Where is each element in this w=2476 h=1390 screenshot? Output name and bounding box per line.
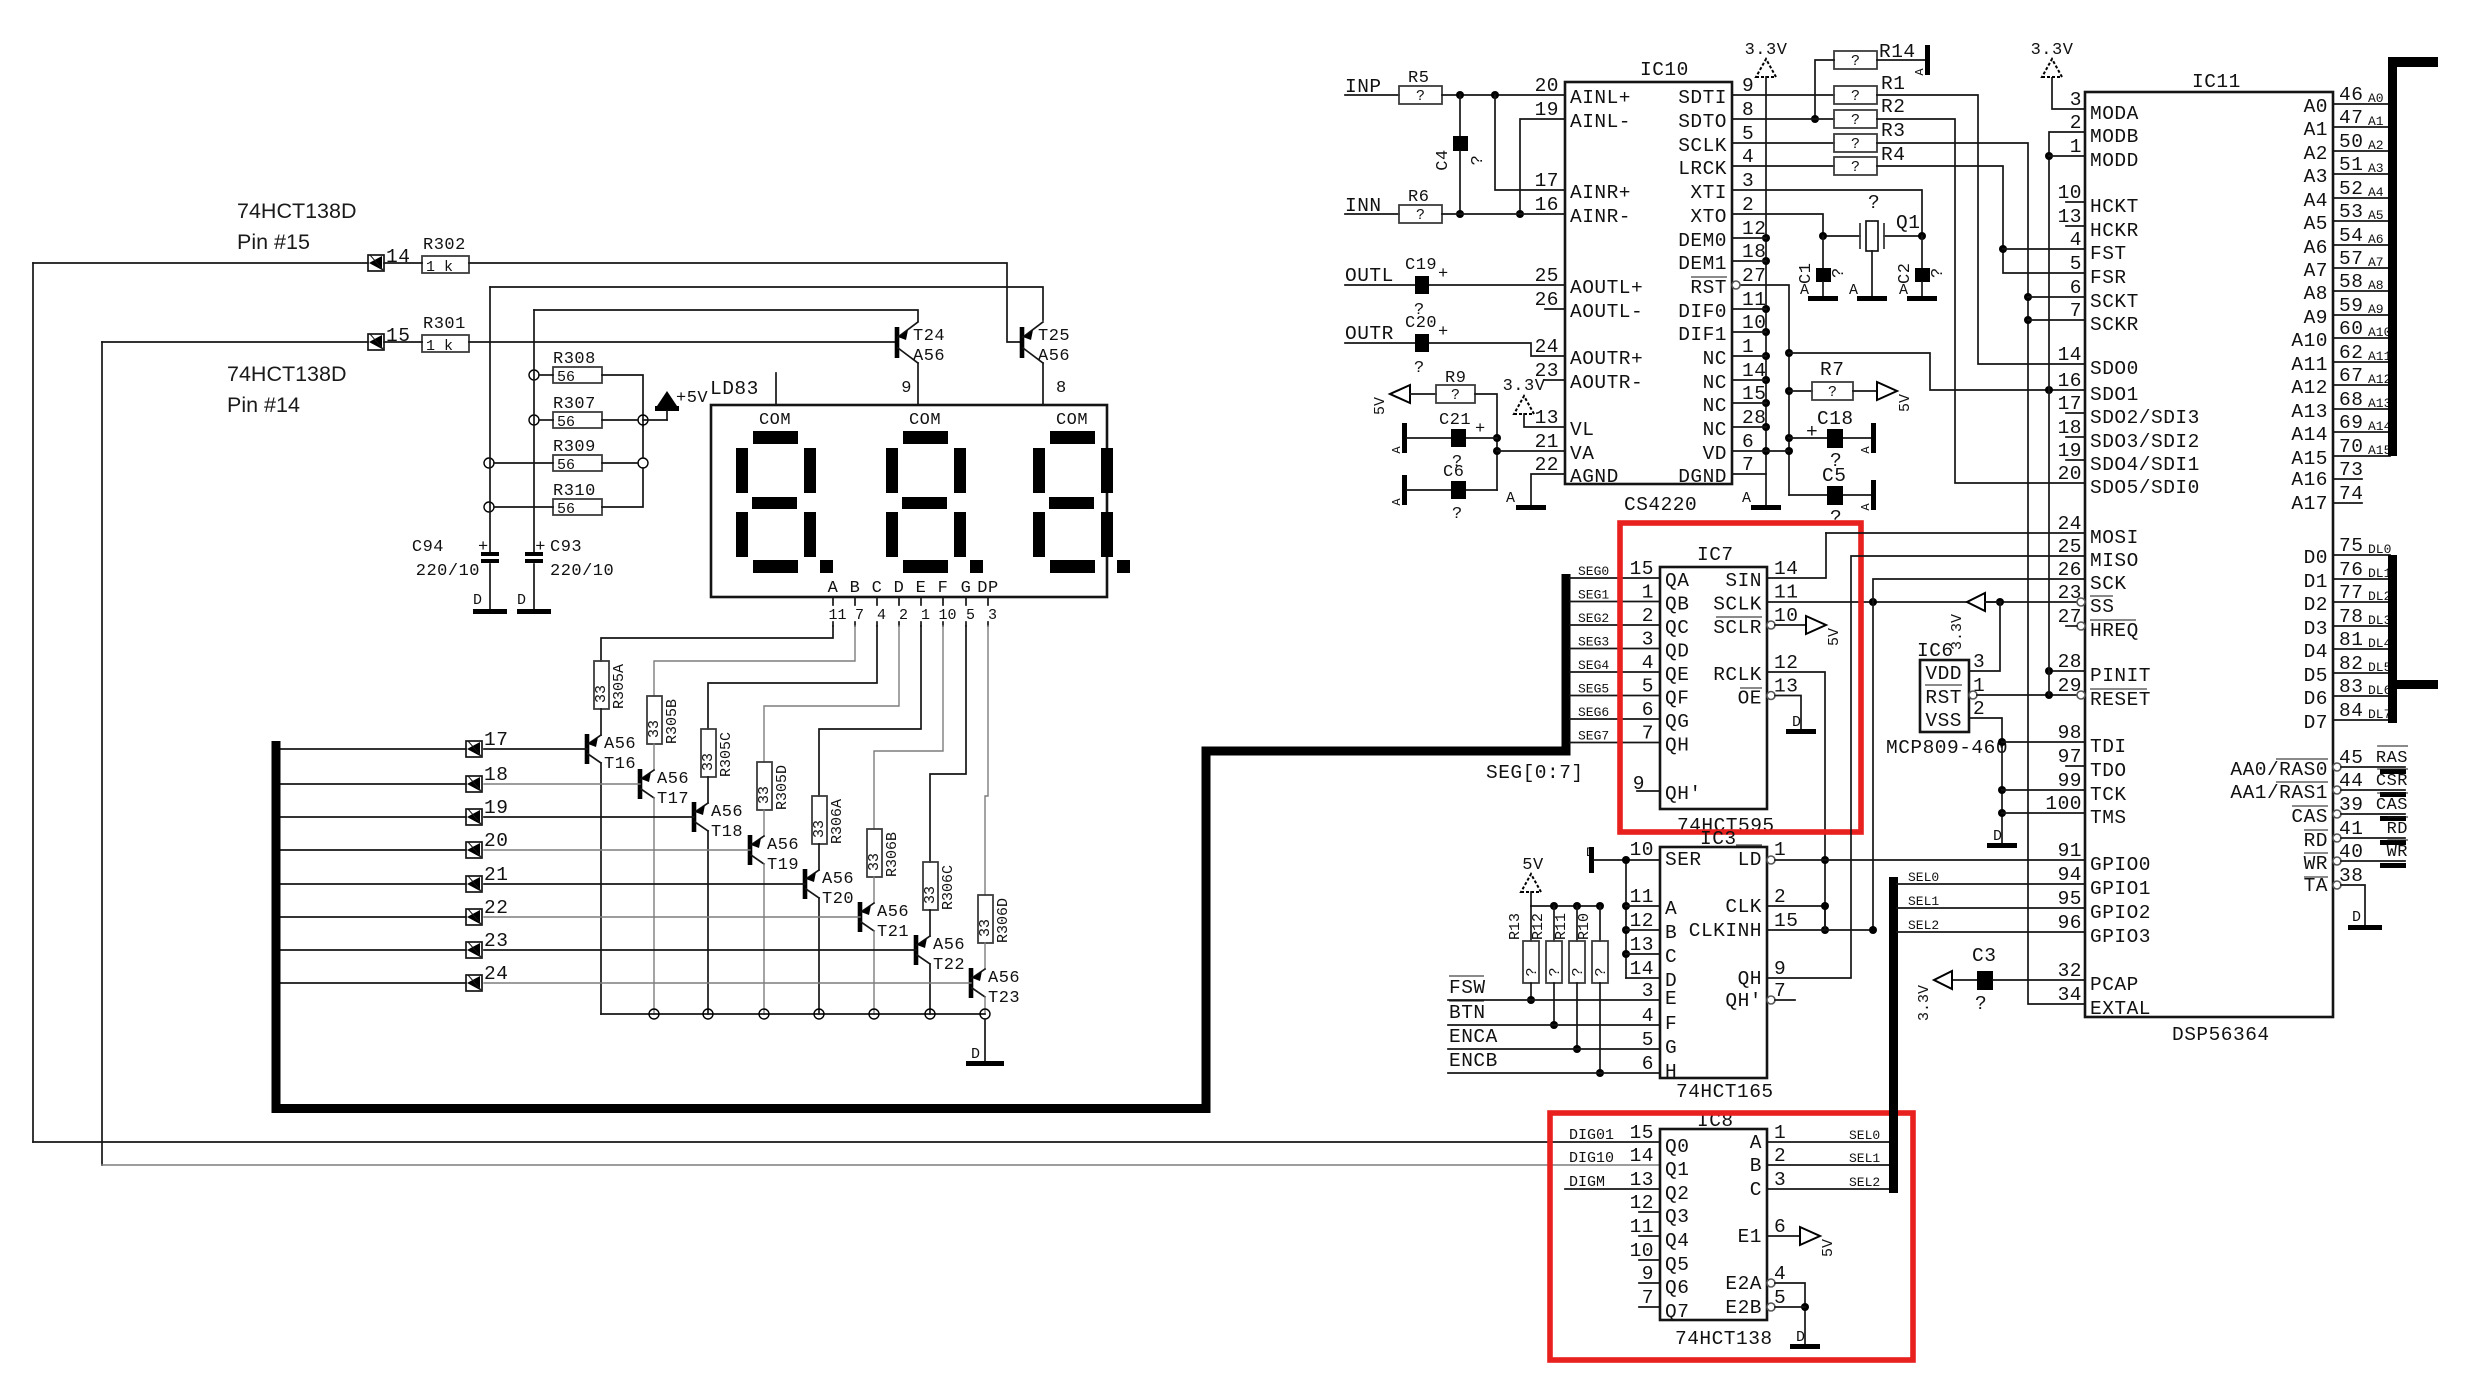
svg-text:D: D — [894, 579, 905, 598]
svg-text:T19: T19 — [767, 856, 799, 875]
svg-text:?: ? — [1524, 967, 1541, 976]
wire net DIG01 left vertical from pin-14 row down to bottom run — [32, 263, 34, 1142]
svg-text:A6: A6 — [2368, 232, 2384, 247]
display digit 2 segment G — [902, 497, 947, 509]
svg-text:R13: R13 — [1507, 913, 1524, 940]
wire bus to arrow 17 — [280, 748, 466, 750]
wire OE to ground — [1767, 692, 1775, 700]
svg-text:R301: R301 — [423, 315, 466, 334]
svg-text:20: 20 — [2058, 463, 2082, 485]
svg-text:ENCB: ENCB — [1449, 1050, 1498, 1072]
wire R4 to FST/FSR — [1877, 166, 2085, 273]
svg-text:DSP56364: DSP56364 — [2172, 1024, 2270, 1046]
input pin arrow 22 — [466, 909, 482, 925]
svg-text:7: 7 — [1642, 1287, 1654, 1309]
svg-text:RAS: RAS — [2376, 749, 2408, 768]
svg-text:24: 24 — [2058, 513, 2082, 535]
wire net DIG10 to input arrow 15 — [102, 341, 368, 343]
svg-text:A5: A5 — [2304, 213, 2328, 235]
svg-text:A1: A1 — [2304, 119, 2328, 141]
svg-text:69: 69 — [2339, 412, 2363, 434]
wire R308 right to +5V rail — [602, 375, 643, 426]
ground A at R14 — [1925, 45, 1930, 75]
resistor R305C 33 — [701, 729, 716, 777]
wire FSW to IC3 E — [1448, 999, 1660, 1001]
svg-text:38: 38 — [2339, 865, 2363, 887]
wire SEG7 from bus to IC7 QH — [1570, 742, 1660, 744]
wire common line to ground — [984, 1019, 986, 1061]
IC11 inside overline RAS0 — [2276, 758, 2328, 760]
svg-text:MISO: MISO — [2090, 550, 2139, 572]
input pin arrow 18 — [466, 776, 482, 792]
svg-text:A14: A14 — [2291, 424, 2328, 446]
display segment pin 7 stub — [854, 597, 856, 605]
svg-text:CLKINH: CLKINH — [1689, 920, 1762, 942]
svg-text:81: 81 — [2339, 629, 2363, 651]
svg-text:Q6: Q6 — [1665, 1277, 1689, 1299]
display digit 2 segment DP — [970, 560, 983, 573]
svg-text:17: 17 — [1535, 170, 1559, 192]
wire bus to arrow 19 — [280, 816, 466, 818]
wire XTO to crystal — [1732, 214, 1860, 236]
svg-text:D2: D2 — [2304, 594, 2328, 616]
svg-text:A4: A4 — [2368, 185, 2384, 200]
thick bus stub CAS — [2380, 816, 2406, 821]
svg-text:3: 3 — [2070, 89, 2082, 111]
display segment pin 3 stub — [987, 597, 989, 605]
display digit 2 segment C — [954, 512, 966, 557]
svg-text:AOUTR+: AOUTR+ — [1570, 348, 1643, 370]
svg-text:SEL1: SEL1 — [1849, 1151, 1880, 1166]
svg-text:6: 6 — [1642, 699, 1654, 721]
svg-text:33: 33 — [977, 919, 994, 937]
display digit 3 segment F — [1033, 448, 1045, 493]
svg-text:AINL+: AINL+ — [1570, 87, 1631, 109]
wire CLKINH to SCK net — [1767, 929, 1873, 931]
svg-text:?: ? — [1851, 53, 1860, 70]
svg-text:QE: QE — [1665, 664, 1689, 686]
svg-text:R305D: R305D — [774, 765, 791, 810]
svg-text:R305C: R305C — [718, 732, 735, 777]
svg-text:VL: VL — [1570, 419, 1594, 441]
transistor T19 A56 — [748, 835, 753, 865]
svg-text:4: 4 — [1742, 146, 1754, 168]
wire SEG6 from bus to IC7 QG — [1570, 718, 1660, 720]
svg-text:SDO3/SDI2: SDO3/SDI2 — [2090, 431, 2200, 453]
svg-text:10: 10 — [1630, 1240, 1654, 1262]
svg-text:DEM1: DEM1 — [1678, 253, 1727, 275]
power 3.3V arrow at C3 — [1934, 971, 1952, 989]
svg-text:A56: A56 — [822, 870, 854, 889]
svg-text:9: 9 — [1774, 958, 1786, 980]
svg-text:33: 33 — [756, 786, 773, 804]
svg-text:56: 56 — [557, 414, 575, 431]
wire R305A to T16 emitter — [600, 709, 602, 735]
svg-text:C: C — [872, 579, 883, 598]
svg-text:A: A — [1849, 282, 1858, 299]
svg-text:Pin #15: Pin #15 — [237, 230, 310, 254]
svg-text:AOUTL+: AOUTL+ — [1570, 277, 1643, 299]
wire VSS down through JTAG pins to ground — [1969, 718, 2002, 843]
svg-text:2: 2 — [1642, 605, 1654, 627]
display digit 2 segment A — [903, 431, 948, 444]
power 3.3V arrow at IC6 — [1967, 593, 1985, 611]
svg-text:A: A — [828, 579, 839, 598]
svg-text:OUTL: OUTL — [1345, 265, 1394, 287]
wire GPIO2 SEL1 — [1897, 907, 2085, 909]
wire R305B to T17 emitter — [653, 744, 655, 770]
svg-text:6: 6 — [1742, 431, 1754, 453]
svg-text:CS4220: CS4220 — [1624, 494, 1697, 516]
svg-text:R3: R3 — [1881, 120, 1905, 142]
svg-text:SCK: SCK — [2090, 573, 2127, 595]
svg-text:RST: RST — [1925, 687, 1962, 709]
svg-text:A1: A1 — [2368, 114, 2384, 129]
svg-text:SEL2: SEL2 — [1908, 918, 1939, 933]
display segment pin 11 stub — [832, 597, 834, 605]
svg-text:TA: TA — [2304, 875, 2328, 897]
svg-text:WR: WR — [2387, 843, 2408, 862]
transistor T23 A56 — [969, 968, 974, 998]
svg-text:2: 2 — [1774, 886, 1786, 908]
svg-text:?: ? — [1851, 136, 1860, 153]
svg-text:SDO4/SDI1: SDO4/SDI1 — [2090, 454, 2200, 476]
wire SER/A/B/C/D tie rail — [1625, 860, 1627, 978]
display digit 2 segment B — [954, 448, 966, 493]
svg-text:1: 1 — [1774, 839, 1786, 861]
svg-text:DL3: DL3 — [2368, 613, 2391, 628]
svg-text:SCLK: SCLK — [1713, 594, 1762, 616]
svg-text:33: 33 — [646, 720, 663, 738]
IC7 OE overline — [1740, 687, 1762, 689]
wire crystal case to ground — [1871, 251, 1873, 296]
wire HCKT stub — [2066, 201, 2085, 203]
svg-text:G: G — [1665, 1037, 1677, 1059]
display digit 3 segment A — [1050, 431, 1095, 444]
svg-text:C: C — [1665, 946, 1677, 968]
wire base of T17 from input arrow 18 — [484, 783, 640, 785]
wire SDO3 stub — [2066, 436, 2085, 438]
wire T19 collector down to common line — [763, 864, 765, 1014]
display digit 1 segment F — [736, 448, 748, 493]
svg-text:D7: D7 — [2304, 712, 2328, 734]
wire R5 to AINL+ — [1442, 94, 1565, 96]
svg-text:A8: A8 — [2304, 283, 2328, 305]
svg-text:A3: A3 — [2368, 161, 2384, 176]
IC11 HREQ overline — [2090, 619, 2136, 621]
svg-text:9: 9 — [901, 379, 912, 398]
resistor R12 pullup — [1553, 906, 1555, 941]
svg-text:3.3V: 3.3V — [1949, 614, 1966, 650]
wire MODB/MODD to reset net — [2049, 132, 2085, 695]
svg-text:SDTO: SDTO — [1678, 111, 1727, 133]
wire T24 collector to display COM pin 9 — [917, 363, 919, 405]
svg-text:QA: QA — [1665, 570, 1689, 592]
wire R307 right — [602, 419, 638, 421]
wire BTN to IC3 F — [1448, 1024, 1660, 1026]
svg-text:4: 4 — [1642, 652, 1654, 674]
junction circle on collector line — [649, 1009, 659, 1019]
svg-text:A: A — [1859, 503, 1873, 511]
wire SDO2 stub — [2066, 412, 2085, 414]
svg-text:18: 18 — [484, 764, 508, 786]
thick bus SEL vertical — [1889, 877, 1898, 1193]
IC8 Q3 stub — [1639, 1211, 1660, 1213]
wire T20 collector down to common line — [818, 898, 820, 1014]
wire VDD to 3.3V and SS net — [1969, 602, 2000, 671]
display segment pin 1 stub — [920, 597, 922, 605]
wire QH up to MISO — [1767, 556, 2085, 978]
svg-text:82: 82 — [2339, 653, 2363, 675]
svg-text:PINIT: PINIT — [2090, 665, 2151, 687]
wire segment A from display to R305A — [601, 626, 833, 661]
svg-text:A: A — [1665, 898, 1677, 920]
power 5V arrow at R9 — [1390, 385, 1410, 403]
svg-text:8: 8 — [1742, 99, 1754, 121]
svg-text:98: 98 — [2058, 722, 2082, 744]
svg-text:D4: D4 — [2304, 641, 2328, 663]
svg-text:11: 11 — [1630, 1216, 1654, 1238]
svg-text:SDO0: SDO0 — [2090, 358, 2139, 380]
svg-text:56: 56 — [557, 369, 575, 386]
svg-text:TDO: TDO — [2090, 760, 2127, 782]
svg-text:?: ? — [1828, 384, 1837, 401]
svg-text:A9: A9 — [2368, 302, 2384, 317]
thick bus DL stub — [2392, 680, 2438, 689]
wire bus to arrow 23 — [280, 949, 466, 951]
svg-text:A: A — [1899, 282, 1908, 299]
svg-text:24: 24 — [1535, 336, 1559, 358]
wire base of T21 from input arrow 22 — [484, 916, 860, 918]
svg-text:D: D — [2352, 909, 2361, 926]
svg-text:62: 62 — [2339, 342, 2363, 364]
IC11 RESET overline — [2090, 688, 2147, 690]
svg-text:A13: A13 — [2368, 396, 2391, 411]
svg-text:10: 10 — [1774, 605, 1798, 627]
svg-text:SEG[0:7]: SEG[0:7] — [1486, 762, 1584, 784]
svg-text:C5: C5 — [1822, 465, 1846, 487]
svg-text:HCKR: HCKR — [2090, 220, 2139, 242]
svg-text:18: 18 — [2058, 417, 2082, 439]
wire T17 collector down to common line — [653, 798, 655, 1014]
svg-text:DL7: DL7 — [2368, 707, 2391, 722]
wire T25 emitter rail — [490, 287, 1043, 320]
svg-text:DIF0: DIF0 — [1678, 301, 1727, 323]
wire RCLK down to LD/GPIO0 net — [1767, 672, 1825, 930]
svg-text:T18: T18 — [711, 823, 743, 842]
thick bus SEG from transistor area to IC7 — [276, 574, 1566, 1109]
svg-text:C2: C2 — [1896, 263, 1915, 284]
svg-text:MCP809-460: MCP809-460 — [1886, 737, 2008, 759]
svg-text:15: 15 — [1630, 1122, 1654, 1144]
svg-text:R11: R11 — [1553, 913, 1570, 940]
wire SEG0 from bus to IC7 QA — [1570, 577, 1660, 579]
wire SIN to MOSI — [1767, 533, 1826, 578]
svg-text:15: 15 — [1774, 910, 1798, 932]
wire base of T20 from input arrow 21 — [484, 883, 805, 885]
wire PCAP — [1993, 979, 2085, 981]
thick bus stub WR — [2380, 863, 2406, 868]
wire SEG3 from bus to IC7 QD — [1570, 648, 1660, 650]
svg-text:1: 1 — [921, 607, 930, 624]
svg-text:33: 33 — [593, 685, 610, 703]
svg-text:12: 12 — [1630, 910, 1654, 932]
svg-text:Q5: Q5 — [1665, 1254, 1689, 1276]
svg-text:T24: T24 — [913, 327, 945, 346]
svg-text:5V: 5V — [1897, 394, 1914, 412]
svg-text:F: F — [1665, 1013, 1677, 1035]
thick bus A top stub — [2389, 57, 2438, 67]
svg-text:F: F — [938, 579, 949, 598]
wire XTI to crystal — [1732, 190, 1922, 236]
svg-text:13: 13 — [1774, 676, 1798, 698]
svg-text:44: 44 — [2339, 770, 2363, 792]
svg-text:+: + — [1438, 323, 1449, 342]
svg-text:OE: OE — [1738, 688, 1762, 710]
input pin arrow 20 — [466, 842, 482, 858]
transistor T25 — [1020, 327, 1025, 358]
svg-text:28: 28 — [2058, 651, 2082, 673]
resistor R10 pullup — [1599, 906, 1601, 941]
input pin arrow 23 — [466, 942, 482, 958]
svg-text:?: ? — [1851, 159, 1860, 176]
svg-text:DL0: DL0 — [2368, 542, 2391, 557]
svg-text:15: 15 — [386, 325, 410, 347]
svg-text:5: 5 — [2070, 253, 2082, 275]
svg-text:96: 96 — [2058, 912, 2082, 934]
wire DIF0 stub — [1732, 308, 1766, 310]
svg-text:25: 25 — [1535, 265, 1559, 287]
svg-text:14: 14 — [1630, 958, 1654, 980]
wire IC6 RST to IC11 RESET — [1969, 691, 1977, 699]
thick bus stub CSR — [2380, 792, 2406, 797]
svg-text:11: 11 — [1630, 886, 1654, 908]
svg-text:AINR-: AINR- — [1570, 206, 1631, 228]
junction circle on collector line — [869, 1009, 879, 1019]
wire R1 to SDO0 — [1877, 95, 2085, 364]
svg-text:67: 67 — [2339, 365, 2363, 387]
display segment pin 4 stub — [876, 597, 878, 605]
svg-text:A: A — [1750, 1132, 1762, 1154]
wire R310 right to +5V rail — [602, 468, 643, 507]
svg-text:FSW: FSW — [1449, 977, 1486, 999]
svg-text:26: 26 — [1535, 289, 1559, 311]
resistor R305A 33 — [594, 661, 609, 709]
svg-text:A5: A5 — [2368, 208, 2384, 223]
wire R302 to T25 base — [469, 263, 1020, 342]
svg-text:13: 13 — [2058, 206, 2082, 228]
wire MOSI to SIN — [1826, 532, 2085, 534]
svg-text:220/10: 220/10 — [416, 562, 480, 581]
wire R11 bottom to input line — [1576, 983, 1578, 1049]
wire R301 left — [384, 341, 422, 343]
power 5V arrow at R7 — [1853, 390, 1877, 392]
svg-text:RESET: RESET — [2090, 689, 2151, 711]
wire HREQ stub — [2077, 622, 2085, 630]
svg-text:GPIO0: GPIO0 — [2090, 854, 2151, 876]
IC8 Q6 stub — [1639, 1282, 1660, 1284]
svg-text:Q0: Q0 — [1665, 1136, 1689, 1158]
resistor R305D 33 — [757, 762, 772, 810]
wire T24 emitter rail — [534, 310, 918, 321]
svg-text:A12: A12 — [2368, 372, 2391, 387]
junction circle on collector line — [759, 1009, 769, 1019]
svg-text:COM: COM — [1056, 411, 1088, 430]
svg-text:?: ? — [1975, 993, 1987, 1015]
svg-text:B: B — [1750, 1155, 1762, 1177]
display digit 3 segment B — [1101, 448, 1113, 493]
svg-text:33: 33 — [922, 886, 939, 904]
svg-text:VA: VA — [1570, 443, 1594, 465]
power 5V arrow at E1 — [1800, 1227, 1820, 1245]
power 5V arrow at SCLR — [1806, 616, 1826, 634]
svg-text:SDO1: SDO1 — [2090, 384, 2139, 406]
wire R13 bottom to input line — [1530, 983, 1532, 1000]
svg-text:?: ? — [1830, 267, 1849, 278]
wire reset net to SDO1 of IC11 — [1789, 353, 2085, 390]
svg-text:VSS: VSS — [1925, 710, 1962, 732]
wire RST to reset network and SDO1 — [1736, 285, 1789, 495]
svg-text:3: 3 — [1973, 651, 1985, 673]
svg-text:74HCT138: 74HCT138 — [1675, 1328, 1773, 1350]
svg-text:NC: NC — [1703, 419, 1727, 441]
svg-text:R1: R1 — [1881, 73, 1905, 95]
svg-text:SEG4: SEG4 — [1578, 658, 1609, 673]
svg-text:32: 32 — [2058, 960, 2082, 982]
IC8 Q5 stub — [1639, 1259, 1660, 1261]
svg-text:20: 20 — [1535, 75, 1559, 97]
svg-text:A56: A56 — [657, 770, 689, 789]
svg-text:13: 13 — [1630, 934, 1654, 956]
display digit 3 segment DP — [1117, 560, 1130, 573]
svg-text:?: ? — [1416, 88, 1425, 105]
svg-text:56: 56 — [557, 501, 575, 518]
svg-text:97: 97 — [2058, 746, 2082, 768]
svg-text:C: C — [1750, 1179, 1762, 1201]
svg-text:+: + — [1806, 421, 1818, 443]
svg-text:QF: QF — [1665, 688, 1689, 710]
svg-text:E: E — [916, 579, 927, 598]
svg-text:51: 51 — [2339, 154, 2363, 176]
svg-text:SCLK: SCLK — [1678, 135, 1727, 157]
svg-text:5: 5 — [1642, 676, 1654, 698]
svg-text:A: A — [1742, 490, 1751, 507]
svg-text:RCLK: RCLK — [1713, 664, 1762, 686]
svg-text:2: 2 — [1973, 698, 1985, 720]
svg-text:T16: T16 — [604, 755, 636, 774]
svg-text:SCLR: SCLR — [1713, 617, 1762, 639]
svg-text:D1: D1 — [2304, 571, 2328, 593]
svg-text:5V: 5V — [1820, 1239, 1837, 1257]
wire DIF1 stub — [1732, 331, 1766, 333]
wire segment D from display to R305D — [764, 626, 899, 762]
resistor R11 pullup — [1576, 906, 1578, 941]
svg-text:84: 84 — [2339, 700, 2363, 722]
transistor T20 A56 — [803, 869, 808, 899]
svg-text:Q1: Q1 — [1896, 212, 1920, 234]
svg-text:QH': QH' — [1665, 783, 1702, 805]
svg-text:34: 34 — [2058, 984, 2082, 1006]
svg-text:R306A: R306A — [829, 799, 846, 844]
wire base of T18 from input arrow 19 — [484, 816, 694, 818]
svg-text:D6: D6 — [2304, 688, 2328, 710]
svg-text:D3: D3 — [2304, 618, 2328, 640]
svg-text:GPIO2: GPIO2 — [2090, 902, 2151, 924]
svg-text:19: 19 — [484, 797, 508, 819]
svg-text:A13: A13 — [2291, 401, 2328, 423]
svg-text:50: 50 — [2339, 131, 2363, 153]
wire segment C from display to R305C — [708, 626, 877, 729]
